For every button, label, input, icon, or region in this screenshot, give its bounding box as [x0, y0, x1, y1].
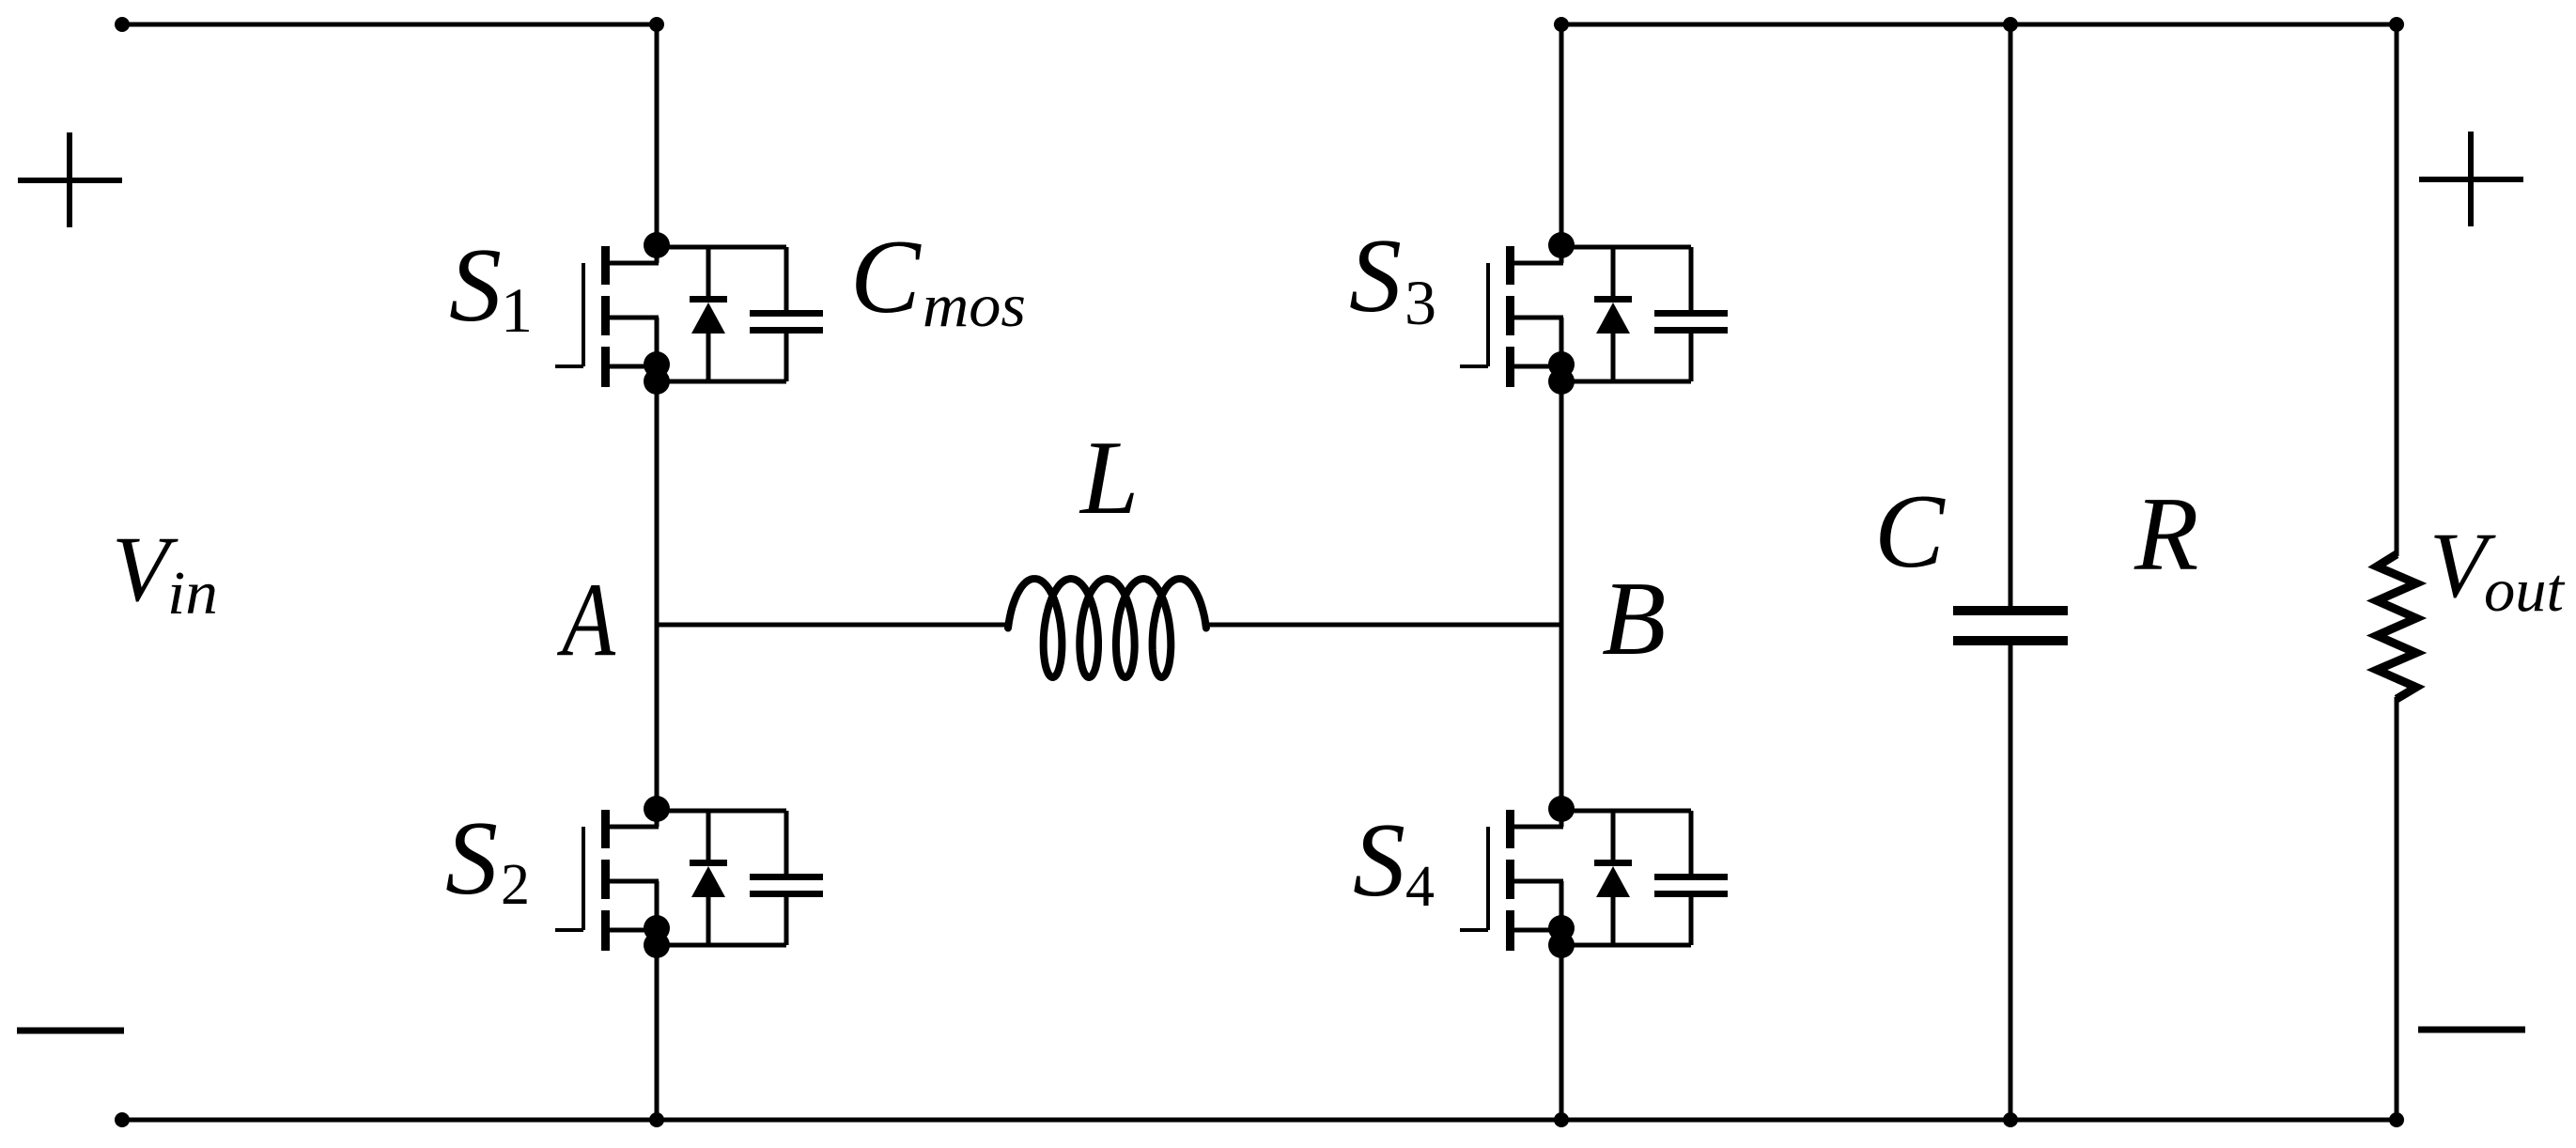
transistor S2: body diode cathode bar — [690, 860, 727, 866]
transistor S2: output capacitance branch lower wire — [784, 895, 789, 945]
transistor S4: drain stub wire — [1560, 809, 1564, 827]
transistor S1: body diode branch lower wire — [706, 334, 711, 381]
svg-text:in: in — [167, 559, 218, 628]
transistor S4: source connection — [1513, 928, 1561, 933]
transistor S3: output capacitance top plate — [1654, 310, 1728, 317]
transistor S3: top channel bar (drain) — [1506, 246, 1514, 285]
svg-text:C: C — [1874, 473, 1946, 590]
node: top-left corner junction dot — [649, 17, 664, 32]
node: capacitor C bottom junction dot — [2003, 1112, 2018, 1127]
transistor S4: body diode branch upper wire — [1611, 811, 1616, 862]
wire: left leg S2 source to bottom rail — [655, 945, 660, 1120]
svg-text:S: S — [1349, 218, 1402, 334]
transistor S4: middle channel bar (body) — [1506, 860, 1514, 899]
transistor S2: drain connection — [609, 825, 659, 830]
transistor S1: bottom channel bar (source) — [601, 347, 610, 387]
transistor S1: source connection — [609, 365, 657, 369]
transistor S3: bottom channel bar (source) — [1506, 347, 1514, 387]
transistor S1: source junction dot — [644, 351, 670, 378]
wire: right leg S4 source to bottom rail — [1560, 945, 1564, 1120]
svg-text:2: 2 — [501, 853, 530, 917]
transistor S1: output capacitance branch lower wire — [784, 332, 789, 381]
transistor S1: body diode branch upper wire — [706, 247, 711, 299]
transistor S3: body diode triangle — [1596, 303, 1630, 334]
transistor S4: gate lead — [1460, 928, 1488, 932]
svg-text:A: A — [556, 562, 615, 678]
transistor S2: drain junction dot — [644, 796, 670, 822]
wire: right leg S3 source to S4 drain (through node B) — [1560, 381, 1564, 809]
transistor S2: body diode triangle — [691, 866, 725, 897]
transistor S2: output capacitance bottom plate — [750, 891, 823, 897]
transistor S4: body diode cathode bar — [1594, 860, 1632, 866]
transistor S1: body diode triangle — [691, 303, 725, 334]
transistor S4: output capacitance branch lower wire — [1689, 895, 1694, 945]
wire: bottom common rail — [122, 1118, 2397, 1123]
transistor S3: output capacitance bottom plate — [1654, 327, 1728, 334]
transistor S4: gate plate — [1486, 827, 1490, 930]
transistor S3: body connection wire — [1513, 316, 1563, 320]
node: S3 leg top corner dot — [1554, 17, 1569, 32]
transistor S3: drain connection — [1513, 261, 1563, 266]
transistor S4: output capacitance bottom plate — [1654, 891, 1728, 897]
svg-text:mos: mos — [923, 271, 1026, 340]
transistor S2: parallel network top wire — [657, 809, 786, 814]
transistor S2: gate plate — [582, 827, 585, 930]
transistor S4: body diode branch lower wire — [1611, 897, 1616, 945]
transistor S4: parallel network top wire — [1561, 809, 1691, 814]
transistor S2: source connection — [609, 928, 657, 933]
transistor S2: top channel bar (drain) — [601, 810, 610, 848]
transistor S4: output capacitance branch upper wire — [1689, 811, 1694, 877]
transistor S1: body connection wire — [609, 316, 659, 320]
transistor S3: source node dot — [1548, 368, 1575, 395]
node: top-left terminal dot — [115, 17, 130, 32]
svg-text:out: out — [2484, 556, 2566, 625]
transistor S4: bottom channel bar (source) — [1506, 910, 1514, 951]
output port plus sign — [2419, 177, 2523, 182]
transistor S1: gate plate — [582, 263, 585, 366]
transistor S4: body connection wire — [1513, 879, 1563, 884]
transistor S1: output capacitance bottom plate — [750, 327, 823, 334]
transistor S3: gate plate — [1486, 263, 1490, 366]
transistor S3: source connection — [1513, 365, 1561, 369]
transistor S3: output capacitance branch lower wire — [1689, 332, 1694, 381]
transistor S3: drain stub wire — [1560, 245, 1564, 263]
capacitor C upper lead — [2009, 24, 2013, 610]
transistor S1: parallel network top wire — [657, 245, 786, 250]
transistor S2: source node dot — [644, 932, 670, 958]
svg-text:C: C — [850, 219, 922, 335]
node: bottom-left terminal dot — [115, 1112, 130, 1127]
wire: node A to inductor — [657, 623, 1008, 628]
transistor S2: parallel network bottom wire — [657, 943, 786, 948]
transistor S2: body diode branch upper wire — [706, 811, 711, 862]
transistor S3: body diode branch upper wire — [1611, 247, 1616, 299]
svg-text:S: S — [1353, 802, 1405, 919]
transistor S1: drain connection — [609, 261, 659, 266]
inductor L coil — [1008, 579, 1206, 677]
transistor S1: gate lead — [555, 365, 583, 368]
transistor S1: middle channel bar (body) — [601, 296, 610, 335]
transistor S3: output capacitance branch upper wire — [1689, 247, 1694, 313]
transistor S4: source node dot — [1548, 932, 1575, 958]
transistor S1: source node dot — [644, 368, 670, 395]
resistor R upper lead — [2395, 24, 2399, 556]
node: S4 leg bottom junction dot — [1554, 1112, 1569, 1127]
node: capacitor C top junction dot — [2003, 17, 2018, 32]
transistor S4: parallel network bottom wire — [1561, 943, 1691, 948]
transistor S2: drain stub wire — [655, 809, 660, 827]
transistor S3: parallel network top wire — [1561, 245, 1691, 250]
transistor S3: body diode branch lower wire — [1611, 334, 1616, 381]
svg-text:B: B — [1602, 561, 1666, 677]
transistor S3: gate lead — [1460, 365, 1488, 368]
output port minus sign — [2418, 1027, 2525, 1033]
transistor S2: output capacitance top plate — [750, 874, 823, 880]
input port minus sign — [17, 1028, 124, 1034]
wire: left leg S1 source to S2 drain (through node A) — [655, 381, 660, 809]
capacitor C lower lead — [2009, 642, 2013, 1120]
svg-text:S: S — [445, 800, 498, 917]
transistor S4: top channel bar (drain) — [1506, 810, 1514, 848]
wire: inductor to node B — [1205, 623, 1561, 628]
wire: top output rail — [1561, 23, 2397, 27]
transistor S2: source junction dot — [644, 915, 670, 941]
wire: left leg from top rail to S1 drain — [655, 24, 660, 245]
transistor S3: parallel network bottom wire — [1561, 380, 1691, 384]
resistor R zigzag body — [2377, 554, 2416, 699]
transistor S1: body diode cathode bar — [690, 296, 727, 303]
transistor S4: output capacitance top plate — [1654, 874, 1728, 880]
transistor S4: source junction dot — [1548, 915, 1575, 941]
wire: top input rail — [122, 23, 657, 27]
transistor S1: output capacitance branch upper wire — [784, 247, 789, 313]
transistor S3: drain junction dot — [1548, 232, 1575, 258]
transistor S4: drain junction dot — [1548, 796, 1575, 822]
transistor S2: middle channel bar (body) — [601, 860, 610, 899]
transistor S1: drain stub wire — [655, 245, 660, 263]
transistor S3: middle channel bar (body) — [1506, 296, 1514, 335]
transistor S2: bottom channel bar (source) — [601, 910, 610, 951]
transistor S1: parallel network bottom wire — [657, 380, 786, 384]
node: top-right corner dot — [2389, 17, 2404, 32]
resistor R lower lead — [2395, 697, 2399, 1120]
transistor S2: body connection wire — [609, 879, 659, 884]
transistor S1: top channel bar (drain) — [601, 246, 610, 285]
transistor S1: drain junction dot — [644, 232, 670, 258]
svg-text:S: S — [449, 227, 502, 344]
transistor S2: gate lead — [555, 928, 583, 932]
transistor S3: body diode cathode bar — [1594, 296, 1632, 303]
transistor S2: output capacitance branch upper wire — [784, 811, 789, 877]
transistor S4: body diode triangle — [1596, 866, 1630, 897]
transistor S3: source junction dot — [1548, 351, 1575, 378]
svg-text:R: R — [2134, 476, 2198, 593]
transistor S2: body diode branch lower wire — [706, 897, 711, 945]
svg-text:3: 3 — [1404, 267, 1436, 338]
node: bottom-right corner dot — [2389, 1112, 2404, 1127]
capacitor C bottom plate — [1953, 636, 2068, 645]
svg-text:4: 4 — [1405, 855, 1435, 919]
transistor S4: drain connection — [1513, 825, 1563, 830]
input port plus sign — [18, 178, 122, 183]
transistor S1: output capacitance top plate — [750, 310, 823, 317]
capacitor C top plate — [1953, 606, 2068, 615]
node: S2 leg bottom junction dot — [649, 1112, 664, 1127]
svg-text:L: L — [1079, 420, 1139, 536]
wire: right leg from top rail to S3 drain — [1560, 24, 1564, 245]
svg-text:1: 1 — [501, 274, 533, 346]
